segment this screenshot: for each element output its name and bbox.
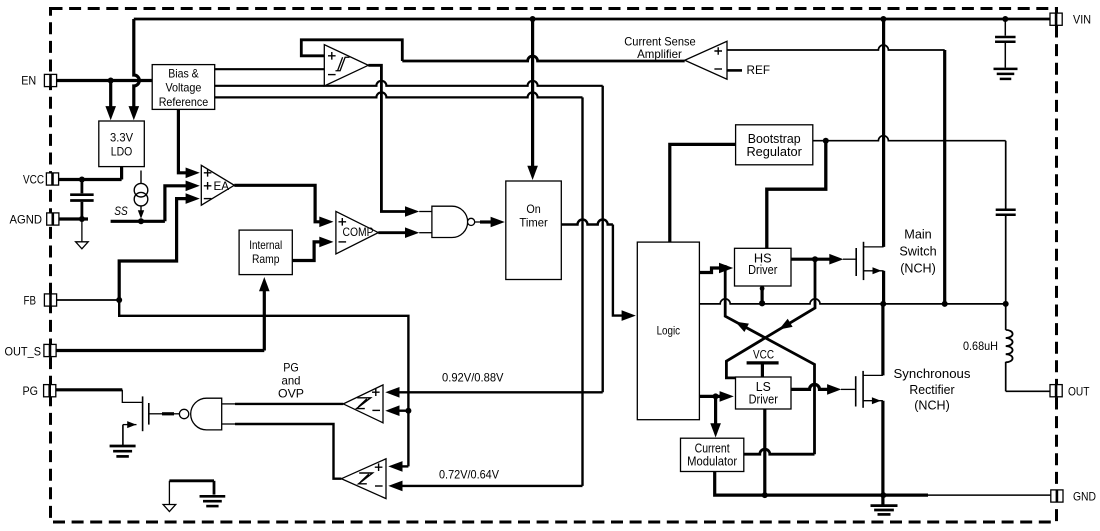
svg-text:0.72V/0.64V: 0.72V/0.64V xyxy=(439,467,499,481)
svg-text:Amplifier: Amplifier xyxy=(637,47,682,61)
svg-text:EN: EN xyxy=(21,74,36,88)
svg-text:SS: SS xyxy=(114,204,128,218)
svg-text:Ramp: Ramp xyxy=(252,252,280,266)
svg-text:3.3V: 3.3V xyxy=(110,131,133,145)
svg-text:VCC: VCC xyxy=(23,172,44,186)
svg-text:(NCH): (NCH) xyxy=(914,398,950,413)
svg-text:Synchronous: Synchronous xyxy=(894,366,971,381)
svg-text:FB: FB xyxy=(24,293,37,307)
svg-text:OUT_S: OUT_S xyxy=(5,344,42,358)
svg-text:GND: GND xyxy=(1073,489,1096,503)
svg-text:OVP: OVP xyxy=(278,386,304,400)
svg-text:COMP: COMP xyxy=(343,227,374,239)
svg-text:Bias &: Bias & xyxy=(168,66,199,80)
svg-text:PG: PG xyxy=(23,384,39,398)
svg-text:(NCH): (NCH) xyxy=(900,261,936,276)
svg-text:Driver: Driver xyxy=(749,392,779,407)
svg-text:Rectifier: Rectifier xyxy=(909,382,955,397)
svg-text:Internal: Internal xyxy=(249,238,282,252)
svg-text:AGND: AGND xyxy=(10,212,43,226)
svg-text:Driver: Driver xyxy=(748,262,778,277)
svg-text:VIN: VIN xyxy=(1073,12,1091,26)
svg-text:EA: EA xyxy=(214,179,230,193)
svg-text:Modulator: Modulator xyxy=(687,454,738,469)
svg-text:Regulator: Regulator xyxy=(746,144,802,159)
svg-text:0.68uH: 0.68uH xyxy=(963,339,998,353)
svg-text:PG: PG xyxy=(283,360,299,374)
svg-text:Timer: Timer xyxy=(519,216,547,230)
svg-text:Reference: Reference xyxy=(159,95,209,109)
svg-text:VCC: VCC xyxy=(753,347,774,361)
svg-text:OUT: OUT xyxy=(1068,385,1090,399)
svg-text:LDO: LDO xyxy=(111,145,133,159)
svg-text:and: and xyxy=(282,373,301,387)
svg-text:Logic: Logic xyxy=(657,323,681,337)
svg-text:On: On xyxy=(526,202,540,216)
svg-text:Main: Main xyxy=(904,227,932,242)
svg-text:Switch: Switch xyxy=(899,244,936,259)
svg-text:0.92V/0.88V: 0.92V/0.88V xyxy=(442,370,504,384)
svg-text:Voltage: Voltage xyxy=(165,81,201,95)
svg-text:REF: REF xyxy=(747,63,771,77)
